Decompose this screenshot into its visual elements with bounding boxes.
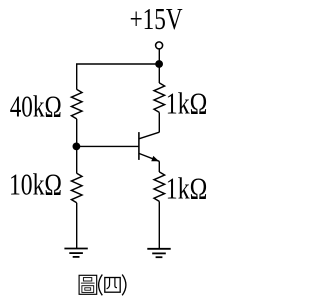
- wire right rail upper: [158, 64, 160, 83]
- wire 1k emitter to ground: [158, 201, 160, 248]
- wire 40k to base node: [76, 119, 78, 146]
- resistor R3 1k collector: [154, 83, 165, 113]
- wire 10k to ground: [76, 203, 78, 249]
- wire terminal to top node: [158, 49, 160, 64]
- ground left: [64, 248, 87, 250]
- caption glyph TU (figure): [79, 275, 97, 294]
- transistor Q1 emitter arrowhead: [151, 156, 159, 161]
- node top junction dot: [155, 60, 163, 68]
- wire left rail upper: [76, 64, 78, 90]
- svg-text:1kΩ: 1kΩ: [166, 171, 208, 205]
- transistor Q1 collector lead: [139, 132, 159, 139]
- wire top horizontal: [76, 63, 159, 65]
- ground right: [147, 248, 170, 250]
- wire base node down: [76, 146, 78, 173]
- svg-text:+15V: +15V: [130, 2, 183, 36]
- wire 1k to collector: [158, 112, 160, 132]
- caption open paren: [99, 275, 103, 296]
- caption glyph SI (four): [105, 278, 120, 293]
- transistor Q1 emitter lead: [139, 153, 159, 161]
- resistor R2 10k: [71, 173, 82, 203]
- resistor R1 40k: [71, 89, 82, 119]
- svg-text:40kΩ: 40kΩ: [10, 89, 62, 123]
- transistor Q1 base bar: [138, 132, 140, 160]
- svg-text:10kΩ: 10kΩ: [9, 168, 62, 202]
- wire base horizontal: [77, 145, 139, 147]
- node base junction dot: [73, 143, 81, 151]
- resistor R4 1k emitter: [154, 172, 165, 202]
- caption close paren: [122, 275, 126, 296]
- svg-text:1kΩ: 1kΩ: [166, 86, 208, 120]
- wire emitter down: [158, 161, 160, 172]
- terminal +15V open circle: [156, 42, 163, 49]
